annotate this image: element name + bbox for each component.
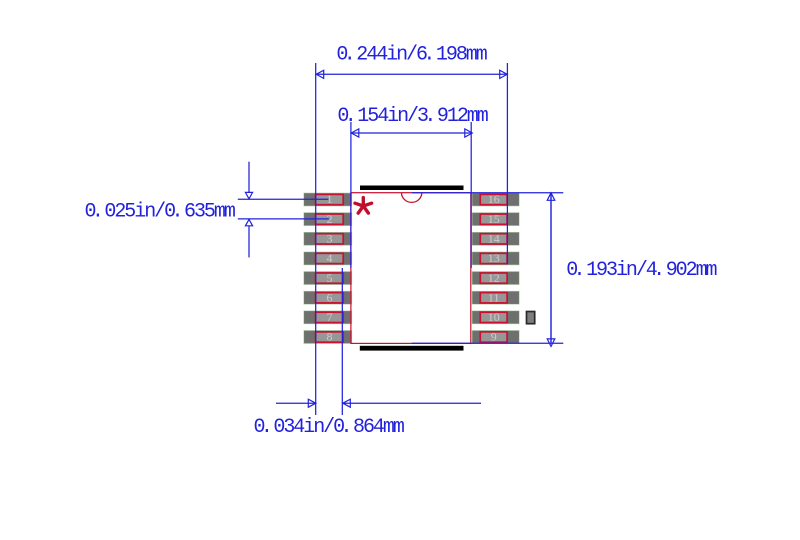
pad 5 red outline bbox=[316, 273, 344, 283]
pad 4 gray bbox=[304, 252, 352, 265]
open arrowheads bbox=[245, 70, 554, 407]
arrowhead 0.193 up bbox=[547, 193, 555, 201]
pad 3 red outline bbox=[316, 234, 344, 244]
svg-text:12: 12 bbox=[488, 271, 500, 285]
wire: 0.154 left extension vertical bbox=[350, 122, 352, 268]
pad 7 gray bbox=[304, 311, 352, 324]
svg-text:0.025in/0.635mm: 0.025in/0.635mm bbox=[85, 201, 235, 224]
pad 14 gray bbox=[472, 232, 519, 245]
pad 11 red outline bbox=[480, 293, 507, 303]
svg-text:0.034in/0.864mm: 0.034in/0.864mm bbox=[254, 416, 404, 439]
wire: 0.154 dim line bbox=[351, 132, 472, 134]
pad 2 gray bbox=[304, 213, 352, 226]
svg-text:8: 8 bbox=[327, 330, 333, 344]
pad 9 gray bbox=[472, 331, 519, 344]
arrowhead 0.034 left-pointing bbox=[343, 399, 351, 407]
pad 9 red outline bbox=[480, 332, 507, 342]
wire: 0.244 right extension vertical bbox=[506, 63, 508, 264]
wire: 0.193 top extension bbox=[412, 192, 564, 194]
pad 16 red outline bbox=[480, 194, 507, 204]
pad 12 gray bbox=[472, 272, 519, 285]
pad 10 red outline bbox=[480, 312, 507, 322]
svg-text:13: 13 bbox=[488, 251, 500, 265]
wire: 0.025 vertical below bbox=[248, 226, 250, 258]
wire: 0.193 dim vertical overdraw bbox=[550, 193, 552, 343]
pad 11 gray bbox=[472, 291, 519, 304]
svg-text:5: 5 bbox=[327, 271, 333, 285]
svg-text:0.193in/4.902mm: 0.193in/4.902mm bbox=[566, 259, 716, 282]
pad 3 gray bbox=[304, 232, 352, 245]
arrowhead 0.244 right bbox=[500, 70, 508, 78]
pad 14 red outline bbox=[480, 234, 507, 244]
wire: 0.244 dim line bbox=[316, 73, 507, 75]
pin-1 orientation arc (notch) bbox=[402, 193, 422, 203]
arrowhead 0.034 right-pointing bbox=[308, 399, 316, 407]
pad 16 gray bbox=[472, 193, 519, 206]
polarity mark small box near pin 10 bbox=[527, 312, 535, 324]
wire: 0.193 bottom extension bbox=[412, 342, 564, 344]
arrowhead 0.154 left bbox=[351, 129, 359, 137]
right pads group (gray land rectangles, pins 16-9) bbox=[472, 193, 519, 343]
pad 1 gray bbox=[304, 193, 352, 206]
pin numbers right 16-9 bbox=[488, 192, 500, 343]
svg-text:14: 14 bbox=[488, 231, 500, 245]
svg-text:0.154in/3.912mm: 0.154in/3.912mm bbox=[337, 105, 487, 128]
arrowhead 0.154 right bbox=[465, 129, 473, 137]
silkscreen bar top bbox=[360, 186, 464, 191]
left pads group (gray land rectangles, pins 1-8) bbox=[304, 193, 352, 343]
wire: 0.034 left arrow line bbox=[276, 402, 316, 404]
svg-text:6: 6 bbox=[327, 290, 333, 304]
svg-text:3: 3 bbox=[327, 231, 333, 245]
pad 15 gray bbox=[472, 213, 519, 226]
arrowhead 0.244 left bbox=[316, 70, 324, 78]
svg-text:9: 9 bbox=[491, 330, 497, 344]
svg-text:7: 7 bbox=[327, 310, 333, 324]
pad 1 red outline bbox=[316, 194, 344, 204]
pad 12 red outline bbox=[480, 273, 507, 283]
arrowhead 0.025 up bbox=[245, 219, 252, 225]
wire: 0.025 upper leader to pad 1 bbox=[238, 198, 328, 200]
svg-text:15: 15 bbox=[488, 212, 500, 226]
pin numbers left 1-8 bbox=[327, 192, 333, 343]
arrowhead 0.193 down bbox=[547, 339, 555, 347]
svg-text:11: 11 bbox=[488, 290, 500, 304]
arrowhead 0.025 down bbox=[245, 192, 252, 198]
pad 6 gray bbox=[304, 291, 352, 304]
svg-text:4: 4 bbox=[327, 251, 333, 265]
pad 4 red outline bbox=[316, 253, 344, 263]
right pad red outlines (copper pads, pins 16-9) bbox=[480, 194, 507, 342]
pad 7 red outline bbox=[316, 312, 344, 322]
svg-text:16: 16 bbox=[488, 192, 500, 206]
pad 13 gray bbox=[472, 252, 519, 265]
svg-text:10: 10 bbox=[488, 310, 500, 324]
pad 8 gray bbox=[304, 331, 352, 344]
pad 8 red outline bbox=[316, 332, 344, 342]
wire: 0.025 lower leader to pad 2 bbox=[238, 218, 329, 220]
silkscreen bar bottom bbox=[360, 346, 464, 351]
wire: 0.193 dim vertical bbox=[550, 193, 552, 344]
left pad red outlines (copper pads, pins 1-8) bbox=[316, 194, 344, 342]
pad 5 gray bbox=[304, 272, 352, 285]
component body outline bbox=[351, 193, 471, 344]
wire: 0.154 right extension vertical bbox=[470, 122, 472, 268]
pad 10 gray bbox=[472, 311, 519, 324]
wire: 0.034 right extension vertical bbox=[341, 268, 343, 415]
wire: 0.034 right arrow line bbox=[343, 402, 481, 404]
pad 6 red outline bbox=[316, 293, 344, 303]
pad 15 red outline bbox=[480, 214, 507, 224]
svg-text:0.244in/6.198mm: 0.244in/6.198mm bbox=[336, 44, 486, 67]
pad 13 red outline bbox=[480, 253, 507, 263]
pad 2 red outline bbox=[316, 214, 344, 224]
wire: 0.244 left extension vertical bbox=[315, 63, 317, 415]
pin 1 asterisk marker bbox=[355, 198, 372, 214]
wire: 0.025 vertical above bbox=[248, 162, 250, 193]
blue dimension graphics bbox=[238, 63, 564, 415]
